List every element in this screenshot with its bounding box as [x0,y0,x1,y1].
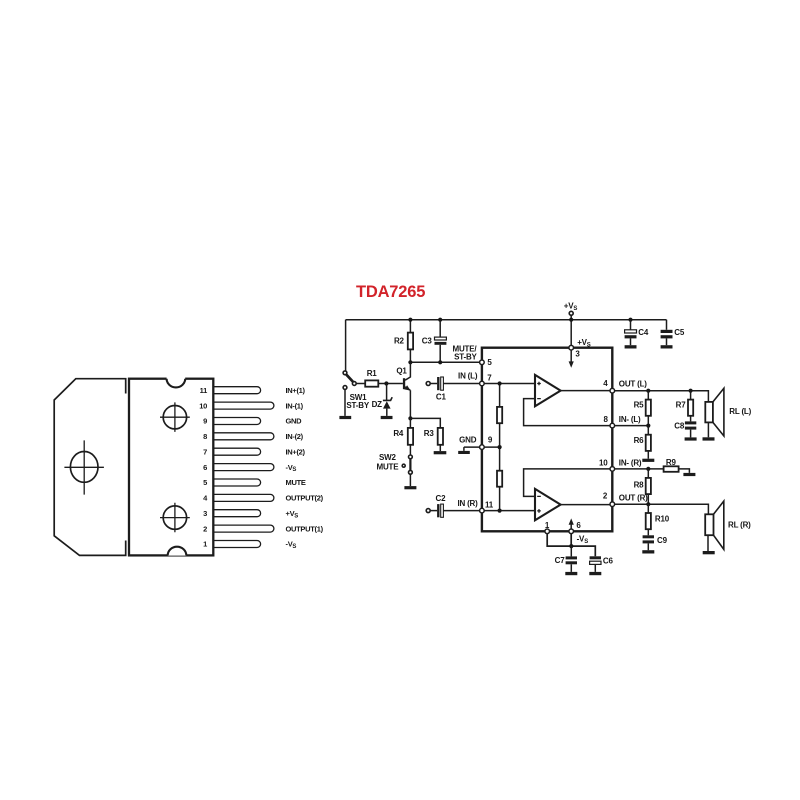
capacitor C1 input terminal [426,382,430,386]
svg-text:10: 10 [199,401,207,410]
svg-text:1: 1 [203,540,207,549]
svg-text:C1: C1 [436,393,447,402]
svg-text:6: 6 [576,521,581,530]
svg-text:GND: GND [459,435,477,444]
node out R at R10 [646,502,650,506]
resistor R3 [438,428,443,445]
wire rail left drop to SW1 [345,320,347,371]
svg-text:C7: C7 [555,556,566,565]
svg-text:C6: C6 [603,556,614,565]
node pin10 row [646,467,650,471]
wire base node to DZ [386,384,388,401]
switch SW1 upper contact [343,371,347,375]
switch SW1 lower contact [343,386,347,390]
capacitor C7 [570,546,572,556]
transistor Q1 [405,362,410,380]
svg-text:10: 10 [599,458,608,467]
node pin8 row [646,424,650,428]
wire pin11 to op-amp U2 [484,510,535,512]
svg-text:Q1: Q1 [396,367,407,376]
svg-text:TDA7265: TDA7265 [356,283,425,301]
svg-text:+VS: +VS [564,301,578,311]
wire pin7 to op-amp U1 [484,383,535,385]
svg-text:C5: C5 [674,328,685,337]
svg-text:R6: R6 [634,436,645,445]
speaker RL (R) [705,514,713,535]
node pin 11 [480,508,485,513]
ground under C8 [685,437,697,440]
top notch [167,377,186,387]
node -Vs junction [569,544,573,548]
node pin 2 [610,502,615,507]
svg-text:IN-(2): IN-(2) [286,432,304,441]
svg-text:OUTPUT(1): OUTPUT(1) [286,524,324,533]
speaker RL (L) [705,402,713,423]
svg-text:OUT (R): OUT (R) [619,494,648,503]
node pin 3 [569,345,574,350]
svg-text:2: 2 [203,524,207,533]
ground under C4 [625,345,637,348]
package Multiwatt11 tab plate [54,379,126,556]
svg-text:5: 5 [203,478,207,487]
svg-text:R8: R8 [634,480,645,489]
svg-text:GND: GND [286,417,303,426]
wire mute/st-by row to pin 5 [410,361,479,363]
small hole lower [163,506,186,529]
wire pin9 gnd row [464,447,500,451]
capacitor C9 [643,535,654,538]
node out L at R7 [689,389,693,393]
svg-text:IN (L): IN (L) [458,372,478,381]
svg-text:4: 4 [603,379,608,388]
small hole upper [163,406,186,429]
svg-text:9: 9 [203,417,207,426]
svg-text:C8: C8 [674,422,685,431]
bottom notch [168,545,187,555]
wire pin10 row [615,468,664,470]
pin lead 3 [212,510,261,517]
wire pin2 out (R) row [615,504,709,514]
wire R1 to base node [378,383,403,385]
capacitor C3 [439,320,441,337]
node pin 4 [610,388,615,393]
resistor R9 [664,466,679,472]
svg-text:RL (R): RL (R) [728,521,751,530]
svg-text:7: 7 [203,447,207,456]
wire pin8 row [615,425,649,427]
arrow +Vs into chip at pin 3 [570,350,572,362]
pin lead 4 [212,494,274,501]
svg-text:ST-BY: ST-BY [454,352,477,361]
wire emitter to R3 branch [410,418,440,428]
switch SW2 upper contact [409,455,413,459]
node pin 7 [480,381,485,386]
op-amp U2 output wire to pin 2 [561,504,612,506]
ground at pin 9 [458,451,470,454]
wire SW1 lower contact to ground [344,389,346,416]
ground under RL (L) [703,437,715,440]
op-amp U1 output wire to pin 4 [561,390,612,392]
svg-text:IN-(1): IN-(1) [286,401,304,410]
ground under SW1 [339,416,351,419]
pin lead 7 [212,448,261,455]
node mute row left [408,360,412,364]
svg-text:7: 7 [487,374,492,383]
svg-text:+VS: +VS [577,338,591,348]
pin lead 8 [212,433,274,440]
svg-text:MUTE: MUTE [286,478,306,487]
resistor R1 [365,380,378,386]
node pin 8 [610,423,615,428]
op-amp U1 feedback to pin 8 [524,399,612,426]
node pin 5 [480,360,485,365]
node rail pin3 [569,318,573,322]
svg-text:DZ: DZ [372,400,383,409]
ground under SW2 [404,486,416,489]
ground under R6 [642,459,654,462]
svg-text:6: 6 [203,463,207,472]
pin lead 11 [212,387,261,394]
resistor input bias lower [499,447,501,471]
node rail R2 [408,318,412,322]
svg-text:11: 11 [485,500,494,509]
pin lead 2 [212,525,274,532]
node base junction [384,381,388,385]
svg-text:R5: R5 [634,400,645,409]
ground under R3 [434,451,447,454]
switch SW1 pole contact [352,382,356,386]
pin lead 9 [212,418,261,425]
node pin 10 [610,467,615,472]
wire SW2 to ground [409,474,411,486]
capacitor C5 [666,320,668,330]
svg-text:ST-BY: ST-BY [346,401,369,410]
node out L at R5 [646,389,650,393]
svg-text:C4: C4 [638,328,649,337]
svg-text:OUTPUT(2): OUTPUT(2) [286,494,324,503]
wire pin4 out (L) row [615,391,709,402]
resistor R5 [647,391,649,400]
svg-text:IN- (L): IN- (L) [619,415,641,424]
node pin 1 [545,529,550,534]
resistor R2 [409,320,411,333]
wire +Vs drop to pin 3 [570,315,572,345]
IC TDA7265 boundary [482,348,612,532]
node rail C4 [628,318,632,322]
svg-text:5: 5 [487,358,492,367]
svg-text:R10: R10 [655,514,670,523]
capacitor C4 [630,320,632,330]
svg-text:R7: R7 [676,400,687,409]
node rail C3 [438,318,442,322]
svg-text:11: 11 [200,386,207,395]
svg-text:OUT (L): OUT (L) [619,380,647,389]
svg-text:+VS: +VS [286,509,299,519]
resistor R7 [690,391,692,400]
capacitor C2 input terminal [426,509,430,513]
switch SW1 blade [346,374,353,381]
node bias mid [498,445,502,449]
wire +Vs top rail [346,319,667,321]
capacitor C1 [437,377,439,390]
svg-text:-VS: -VS [286,463,297,473]
package body [129,379,213,556]
svg-text:2: 2 [603,492,608,501]
resistor R10 [647,504,649,513]
ground under DZ [381,416,393,419]
svg-text:SW2: SW2 [379,453,396,462]
pin lead 6 [212,464,274,471]
pin lead 10 [212,402,274,409]
capacitor C8 [685,421,696,424]
resistor R4 [409,418,411,428]
svg-text:C2: C2 [436,494,447,503]
svg-text:8: 8 [603,415,608,424]
svg-text:C3: C3 [422,337,433,346]
pin lead 1 [212,541,261,548]
node mute row right [438,360,442,364]
svg-text:IN (R): IN (R) [457,499,478,508]
svg-text:C9: C9 [657,536,668,545]
capacitor C6 [590,556,601,559]
svg-text:R9: R9 [666,458,677,467]
wire SW1 to R1 [356,383,365,385]
zener DZ [383,397,392,400]
op-amp U2 feedback to pin 10 [524,469,612,497]
ground after R9 [683,473,695,476]
node bias lower [498,509,502,513]
svg-text:R2: R2 [394,336,405,345]
node emitter junction [408,416,412,420]
node pin 9 [480,445,485,450]
op-amp U2 [535,489,561,520]
switch SW2 mute terminal [402,464,405,467]
switch SW2 blade [409,459,411,470]
ground under C6 [589,572,601,575]
switch SW2 lower contact [409,470,413,474]
svg-text:R1: R1 [367,369,378,378]
arrow -Vs into chip at pin 6 [570,524,572,529]
node bias upper [498,381,502,385]
svg-text:MUTE: MUTE [377,463,400,472]
svg-text:IN+(2): IN+(2) [286,447,306,456]
op-amp U1 [535,375,561,406]
svg-text:R4: R4 [393,429,404,438]
svg-text:IN- (R): IN- (R) [619,458,642,467]
wire pin1 pin6 to -Vs node [547,534,595,557]
resistor input bias upper [499,384,501,407]
svg-text:R3: R3 [424,429,435,438]
ground under C7 [565,572,577,575]
resistor R8 [647,469,649,478]
resistor R6 [647,426,649,435]
ground under C5 [661,345,673,348]
svg-text:IN+(1): IN+(1) [286,386,306,395]
package big mounting hole [70,452,98,483]
pin lead 5 [212,479,261,486]
svg-text:-VS: -VS [577,535,589,545]
svg-text:9: 9 [488,435,493,444]
ground under RL (R) [703,551,715,554]
svg-text:3: 3 [203,509,207,518]
svg-text:RL (L): RL (L) [729,407,751,416]
svg-text:-VS: -VS [286,540,297,550]
terminal +Vs [569,311,573,315]
node pin 6 [569,529,574,534]
capacitor C2 [437,504,439,517]
svg-text:8: 8 [203,432,207,441]
ground under C9 [642,550,654,553]
svg-text:3: 3 [575,350,580,359]
